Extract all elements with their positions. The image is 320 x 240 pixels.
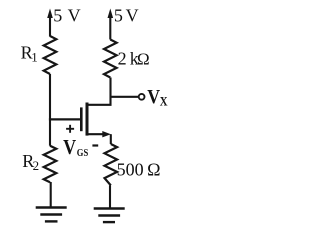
label + (VGS plus) bbox=[66, 125, 74, 133]
wire gate (node to MOSFET gate) bbox=[49, 118, 82, 120]
svg-text:2: 2 bbox=[118, 49, 127, 69]
svg-text:1: 1 bbox=[31, 50, 38, 65]
resistor R1 bbox=[44, 36, 57, 74]
wire output node to Vx terminal bbox=[111, 96, 139, 98]
wire source corner down to 500 ohm bbox=[110, 134, 112, 144]
svg-text:X: X bbox=[160, 94, 168, 109]
transistor M1 channel bar bbox=[86, 103, 89, 136]
svg-text:5: 5 bbox=[114, 6, 123, 26]
5V supply arrow (left) bbox=[47, 9, 53, 37]
wire R2 bottom to ground bbox=[50, 182, 52, 208]
svg-text:V: V bbox=[63, 135, 76, 159]
transistor M1 source lead with arrow bbox=[87, 131, 111, 137]
svg-text:5: 5 bbox=[53, 6, 62, 26]
wire 2k bottom to drain corner bbox=[88, 78, 111, 105]
ground (left) bbox=[36, 208, 67, 222]
transistor M1 gate bar bbox=[80, 107, 83, 131]
terminal circle Vx bbox=[139, 94, 145, 100]
svg-text:Ω: Ω bbox=[137, 50, 150, 69]
svg-text:V: V bbox=[68, 6, 81, 26]
svg-text:500: 500 bbox=[117, 159, 144, 179]
5V supply arrow (right) bbox=[108, 9, 114, 40]
resistor 2 kOhm bbox=[104, 40, 117, 78]
wire R1 bottom to R2 top (left branch) bbox=[49, 74, 51, 146]
resistor 500 Ohm bbox=[105, 144, 118, 185]
svg-text:V: V bbox=[126, 6, 139, 26]
svg-text:2: 2 bbox=[33, 158, 40, 173]
svg-text:V: V bbox=[147, 86, 160, 108]
svg-text:GS: GS bbox=[77, 147, 88, 159]
label - (VGS minus) bbox=[92, 144, 98, 146]
svg-text:Ω: Ω bbox=[147, 159, 160, 179]
ground (right) bbox=[94, 209, 125, 223]
resistor R2 bbox=[44, 146, 57, 183]
wire 500 ohm bottom to ground bbox=[109, 185, 111, 208]
